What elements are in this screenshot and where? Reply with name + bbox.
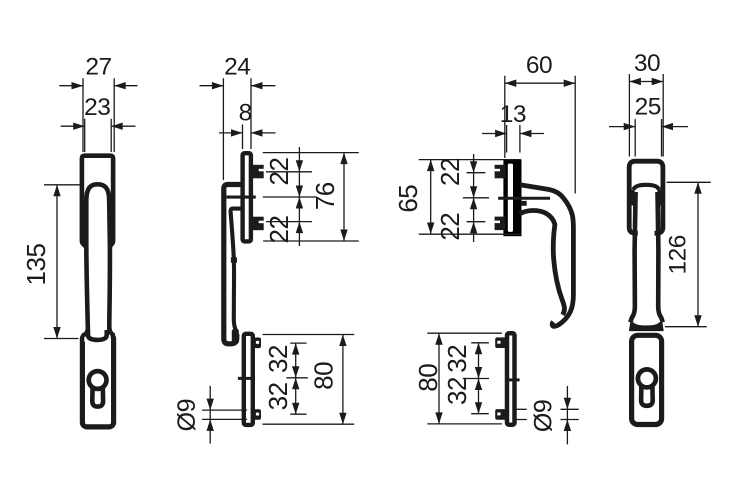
svg-text:32: 32	[263, 345, 293, 373]
view 3 dim 22 chain line	[473, 154, 475, 242]
view 4 grip left edge	[630, 192, 635, 322]
view 2 ext line spindle	[263, 196, 317, 198]
view 2 bottom boss 2	[252, 409, 261, 420]
view 1 grip left flare	[82, 328, 88, 336]
view 1 dim 27 lines	[59, 85, 83, 87]
view 3 dim 60 lines	[505, 82, 575, 84]
view 3 dim 32 arrows	[475, 343, 482, 355]
svg-text:23: 23	[84, 94, 110, 121]
view 3 bottom plate	[507, 333, 515, 425]
view 2 bottom boss 1	[252, 338, 261, 349]
view 2 cylinder line	[238, 377, 255, 380]
view 2 dim dia9 lines	[209, 386, 211, 444]
svg-text:22: 22	[435, 158, 465, 186]
view 2 dim 22 arrows	[296, 160, 303, 172]
view 1 grip right flare	[109, 328, 114, 336]
view 2 lever outer edge	[224, 185, 242, 344]
view 2 ext line plate bottom	[263, 240, 359, 242]
svg-text:25: 25	[635, 93, 661, 120]
view 4 neck collar left	[631, 190, 635, 206]
view 3 ext line bmid	[463, 378, 489, 380]
view 3 bottom boss 1	[495, 337, 506, 348]
view 2 dim 76 line	[343, 153, 345, 241]
view 2 dim 32 chain line	[295, 343, 297, 414]
view 2 ext line bplate top	[263, 334, 355, 336]
view 3 ext line bboss2	[471, 413, 489, 415]
view 3 ext line boss1	[467, 172, 486, 174]
svg-text:24: 24	[224, 54, 250, 81]
svg-text:135: 135	[21, 244, 51, 286]
view 4 grip right edge	[658, 192, 663, 322]
view 3 cylinder line	[506, 378, 520, 381]
view 1 keyhole slot	[92, 386, 103, 406]
view 3 bottom boss 2	[495, 409, 506, 420]
view 4 bottom plate	[632, 335, 662, 424]
view 2 ext line plate top	[263, 152, 359, 154]
view 3 dim 22 arrows	[470, 161, 477, 173]
view 3 dim 13 lines	[482, 133, 507, 135]
view 4 top cap	[629, 161, 663, 233]
svg-text:60: 60	[526, 52, 552, 79]
view 2 lever inner edge	[231, 209, 242, 332]
view 4 cuff	[629, 322, 664, 331]
view 2 ext line boss1	[266, 171, 312, 173]
view 3 ext line spindle	[463, 197, 489, 199]
view 2 top boss 1	[253, 165, 264, 179]
view 3 top plate	[503, 159, 521, 236]
view 2 ext line bboss2	[290, 413, 306, 415]
view 3 spindle line	[498, 197, 550, 200]
view 1 grip tip arc	[88, 330, 107, 340]
svg-text:32: 32	[263, 382, 293, 410]
svg-text:13: 13	[500, 101, 526, 128]
view 2 top boss 2	[253, 217, 264, 231]
view 3 top boss 2	[495, 217, 506, 231]
view 1 handle top housing	[82, 156, 113, 247]
svg-text:27: 27	[85, 53, 111, 80]
view 2 ext line bmid	[286, 377, 307, 379]
view 3 ext line boss2	[467, 221, 486, 223]
view 4 keyhole slot	[641, 385, 653, 406]
view 4 dim 126 lines	[697, 182, 699, 326]
svg-text:76: 76	[310, 182, 340, 210]
view 4 neck collar right	[657, 190, 661, 206]
svg-text:Ø9: Ø9	[530, 400, 558, 432]
view 1 bottom plate	[82, 335, 113, 427]
svg-text:22: 22	[435, 213, 465, 241]
view 4 dim 30 lines	[629, 81, 663, 83]
svg-text:30: 30	[634, 50, 660, 77]
view 3 ext line bplate top	[427, 332, 502, 334]
view 1 plate top mask	[84, 328, 110, 342]
view 1 keyhole circle	[89, 371, 107, 389]
svg-text:22: 22	[264, 216, 294, 244]
svg-text:32: 32	[442, 345, 472, 373]
view 3 dim 32 chain line	[478, 343, 480, 414]
view 3 ext line bplate bottom	[427, 423, 502, 425]
view 2 top plate	[243, 153, 251, 241]
view 2 lever tick	[231, 257, 237, 262]
svg-text:126: 126	[665, 235, 692, 274]
view 4 dim 25 lines	[609, 126, 635, 128]
view 2 dim 8 lines	[219, 132, 243, 134]
view 2 lever tip cap	[232, 329, 239, 343]
view 3 lever outer edge	[520, 185, 573, 327]
view 4 grip dome	[634, 185, 659, 190]
svg-text:8: 8	[239, 100, 252, 127]
view 3 ext line bboss1	[471, 342, 489, 344]
view 1 dim 135 lines	[56, 185, 58, 339]
view 2 ext line boss2	[266, 221, 312, 223]
view 2 dim 32 arrows	[292, 343, 299, 355]
view 1 dim 23 lines	[61, 125, 85, 127]
svg-text:65: 65	[393, 185, 423, 213]
view 1 grip outline with dome	[86, 184, 110, 329]
view 3 dim 80 line	[438, 333, 440, 424]
view 2 dim 22 chain line	[298, 147, 300, 246]
view 2 bottom plate	[244, 334, 253, 425]
svg-text:80: 80	[308, 362, 338, 390]
view 3 top boss 1	[495, 165, 506, 179]
svg-text:32: 32	[442, 377, 472, 405]
view 2 ext line bboss1	[290, 342, 306, 344]
svg-text:22: 22	[264, 158, 294, 186]
view 2 ext line bplate bottom	[263, 423, 355, 425]
view 4 keyhole circle	[638, 369, 656, 387]
view 2 dim 80 line	[342, 335, 344, 425]
view 2 dim 24 lines	[200, 85, 224, 87]
view 3 dim 65 lines	[430, 160, 432, 234]
svg-text:Ø9: Ø9	[173, 399, 201, 431]
view 3 dim dia9 lines	[566, 386, 568, 445]
view 2 spindle line	[227, 196, 256, 199]
view 3 spindle nub	[521, 201, 527, 206]
svg-text:80: 80	[413, 364, 443, 392]
view 3 lever inner edge	[520, 210, 565, 314]
